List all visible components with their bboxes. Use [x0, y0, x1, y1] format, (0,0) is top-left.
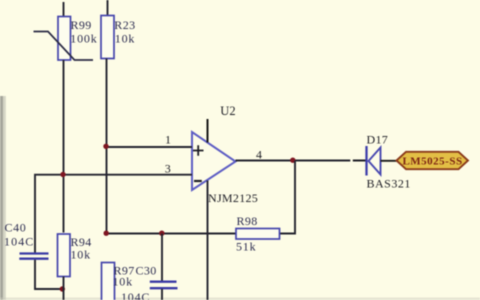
svg-text:LM5025-SS: LM5025-SS	[402, 156, 462, 168]
thermistor R99	[34, 17, 94, 61]
wire pin 1	[107, 146, 193, 148]
wire	[63, 277, 65, 300]
svg-text:R23: R23	[114, 18, 135, 32]
wire	[161, 234, 163, 282]
capacitor C30	[150, 282, 178, 289]
node junction pin1/R23	[103, 144, 108, 149]
svg-text:C40: C40	[5, 221, 27, 235]
node junction pin3/R99-R94	[60, 172, 65, 177]
node junction output/feedback	[290, 158, 295, 163]
wire diode anode lead	[353, 160, 366, 162]
svg-text:BAS321: BAS321	[367, 177, 411, 191]
svg-text:3: 3	[165, 162, 171, 176]
wire output pin 4	[236, 160, 351, 162]
wire	[381, 160, 398, 162]
net label LM5025-SS	[397, 152, 469, 169]
svg-text:NJM2125: NJM2125	[208, 191, 258, 205]
op-amp U2	[192, 132, 236, 190]
svg-text:51k: 51k	[236, 240, 256, 254]
resistor R98	[236, 229, 280, 240]
svg-text:104C: 104C	[4, 235, 34, 249]
wire	[161, 289, 163, 300]
wire	[35, 260, 62, 289]
diode D17	[367, 146, 381, 176]
svg-text:10k: 10k	[113, 275, 133, 289]
svg-text:104C: 104C	[121, 290, 150, 300]
resistor R94	[58, 234, 71, 277]
wire feedback	[107, 161, 296, 234]
wire	[63, 60, 65, 233]
node junction feedback/C30	[159, 231, 164, 236]
svg-text:R98: R98	[237, 214, 258, 228]
svg-text:D17: D17	[367, 133, 389, 147]
svg-text:1: 1	[165, 133, 171, 147]
resistor R97	[102, 263, 115, 300]
wire	[63, 2, 65, 17]
capacitor C40	[19, 254, 48, 259]
svg-text:10k: 10k	[115, 32, 135, 46]
svg-text:C30: C30	[136, 264, 157, 278]
wire	[107, 0, 109, 16]
U2 power pin 5	[207, 119, 209, 143]
svg-text:100k: 100k	[70, 32, 97, 46]
svg-text:10k: 10k	[71, 248, 91, 262]
node junction feedback/R23-R97	[104, 231, 109, 236]
wire	[106, 59, 108, 234]
svg-text:4: 4	[256, 148, 262, 162]
resistor R23	[101, 16, 114, 59]
wire pin 3	[35, 175, 192, 253]
svg-text:U2: U2	[220, 104, 235, 118]
U2 ground pin 2	[207, 181, 209, 300]
svg-text:R99: R99	[71, 18, 92, 32]
node junction C40/R94	[60, 286, 65, 291]
